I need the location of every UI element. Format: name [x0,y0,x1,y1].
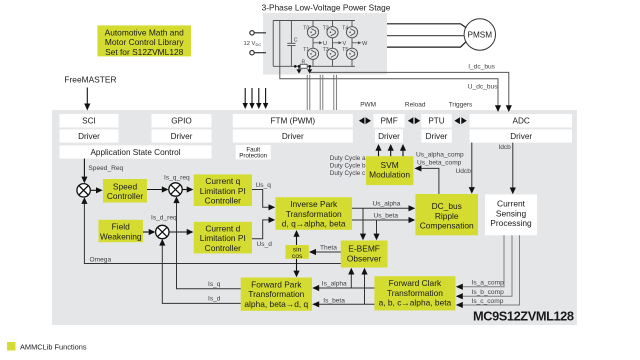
svg-text:Controller: Controller [205,243,242,253]
shunt resistor R [300,64,307,68]
wire Is_alpha branch up to E-BEMF [348,268,354,288]
svg-text:Is_alpha: Is_alpha [322,280,347,287]
svg-text:R: R [302,59,306,65]
wire Speed_Req from ASC to junction [81,159,87,184]
Current Sensing Processing white block [485,194,537,235]
svg-text:SCI: SCI [82,117,96,126]
bridge leg V [332,21,334,67]
svg-text:Us_q: Us_q [256,182,272,189]
SVM to PMF driver arrow 1 [375,144,381,156]
svg-text:Us_alpha: Us_alpha [373,201,401,208]
left rail 2 (bus sense) [279,21,281,67]
SVM to PMF driver arrow 3 [400,144,406,156]
SVM to PMF driver arrow 2 [388,144,394,156]
svg-text:Set for S12ZVML128: Set for S12ZVML128 [105,47,184,57]
svg-text:U: U [323,41,327,47]
svg-text:I_dc_bus: I_dc_bus [468,64,495,71]
svg-text:ADC: ADC [513,117,530,126]
svg-text:Driver: Driver [78,132,100,141]
svg-text:Ripple: Ripple [435,211,459,221]
svg-text:alpha, beta→d, q: alpha, beta→d, q [244,299,308,309]
svg-text:Application State Control: Application State Control [90,148,180,157]
svg-text:MC9S12ZVML128: MC9S12ZVML128 [473,309,574,324]
bridge leg W [351,21,353,67]
legend swatch [7,342,16,351]
svg-text:Forward Park: Forward Park [251,279,302,289]
wire Theta from E-BEMF to sin cos [309,249,341,255]
svg-text:Is_q: Is_q [208,281,221,288]
svg-text:T5: T5 [342,47,348,53]
transistor T5 [346,48,357,59]
wire sin cos down to Forward Park [293,259,299,278]
wire Us_beta from Inverse Park to DC_bus block [352,217,415,223]
12V terminal bottom [250,51,266,55]
wire Is_d from Forward Park to Is_d junction [159,239,241,304]
svg-text:Limitation PI: Limitation PI [200,186,246,196]
power stage gray background box [263,13,387,75]
svg-text:V: V [343,41,347,47]
SCI driver box [60,129,119,142]
svg-text:PWM: PWM [360,102,376,109]
Field Weakening block [99,220,144,242]
ADC box [470,114,573,128]
svg-text:Limitation PI: Limitation PI [200,233,246,243]
summing junction speed error [77,184,90,197]
wire Us_d from Current d PI to Inverse Park [252,217,275,239]
svg-text:Is_c_comp: Is_c_comp [472,298,504,305]
svg-text:Weakening: Weakening [100,231,142,241]
svg-text:Transformation: Transformation [286,209,342,219]
summing junction Is_q [169,183,182,196]
svg-text:SVM: SVM [381,160,399,170]
wire Idcb from ADC driver to Current Sensing [510,143,516,195]
PTU box [421,114,452,128]
MCU gray background box [52,110,577,325]
GPIO driver box [152,129,212,142]
svg-text:Compensation: Compensation [420,221,474,231]
bidirectional arrow FTM-PMF [359,117,371,124]
svg-text:Processing: Processing [490,218,532,228]
AMMCLib title box [97,25,191,56]
svg-text:E-BEMF: E-BEMF [348,244,380,254]
wire Is_beta from Forward Clark to Forward Park [312,301,374,307]
svg-text:FTM (PWM): FTM (PWM) [271,117,316,126]
svg-text:Theta: Theta [320,244,337,251]
wire Speed Controller to Is_q junction [147,186,169,192]
wire I_dc_bus to ADC [310,72,512,112]
bidirectional arrow PTU-ADC [454,117,466,124]
svg-text:DC_bus: DC_bus [432,201,462,211]
svg-text:Is_beta: Is_beta [323,297,345,304]
svg-text:Automotive Math and: Automotive Math and [105,27,184,37]
svg-text:Idcb: Idcb [498,144,511,151]
sin cos block [286,245,309,259]
svg-text:Is_a_comp: Is_a_comp [472,279,505,286]
PMSM motor circle [464,19,495,50]
svg-text:GPIO: GPIO [171,117,191,126]
bottom rail [273,65,355,67]
phase sense wire pair U [307,75,310,110]
ADC driver box [470,129,573,142]
svg-text:Udcb: Udcb [456,168,472,175]
transistor T3 [327,48,338,59]
svg-text:Duty Cycle a: Duty Cycle a [330,155,366,162]
wire Is_alpha from Forward Clark to Forward Park [312,285,374,291]
junction dots on bottom rail [294,65,311,68]
transistor T1 [307,48,318,59]
svg-text:Inverse Park: Inverse Park [290,199,338,209]
svg-text:Transformation: Transformation [387,288,443,298]
svg-text:Duty Cycle b: Duty Cycle b [330,162,366,169]
svg-text:Driver: Driver [378,132,400,141]
svg-text:PTU: PTU [428,117,444,126]
svg-text:T0: T0 [303,26,309,32]
svg-text:12 VDC: 12 VDC [244,41,262,47]
Current q Limitation PI Controller block [194,174,252,206]
svg-text:Us_beta_comp: Us_beta_comp [417,159,462,166]
wire junction to Speed Controller [90,187,102,193]
Application State Control box [60,145,212,158]
SVM Modulation block [366,156,414,185]
svg-text:Current: Current [497,199,526,209]
transistor T4 [346,27,357,38]
wire Is_q junction to Current q PI [182,186,193,192]
wire Udcb from ADC driver to DC_bus block [469,143,475,194]
svg-text:3-Phase Low-Voltage Power Stag: 3-Phase Low-Voltage Power Stage [262,3,391,13]
wire Us_beta branch down to E-BEMF [373,220,379,240]
svg-text:Driver: Driver [426,132,448,141]
svg-text:T4: T4 [342,26,348,32]
FTM (PWM) box [233,114,353,128]
Current d Limitation PI Controller block [194,222,252,254]
svg-text:Triggers: Triggers [449,102,473,109]
top rail [273,20,355,22]
svg-text:Speed_Req: Speed_Req [88,165,123,172]
wire U_dc_bus to ADC [280,66,501,112]
PWM gate arrow 3 [256,88,261,109]
svg-text:Sensing: Sensing [496,208,527,218]
svg-text:T1: T1 [303,47,309,53]
Forward Clark Transformation block [374,276,455,310]
phase wire W to PMSM [387,42,466,48]
svg-text:Current d: Current d [205,223,240,233]
PMF driver box [375,129,403,142]
PTU driver box [421,129,452,142]
svg-text:Reload: Reload [405,102,426,109]
capacitor C [287,21,295,67]
svg-text:Us_d: Us_d [257,241,273,248]
svg-text:U_dc_bus: U_dc_bus [468,83,498,90]
svg-text:C: C [294,38,298,44]
12V terminal top [250,31,266,35]
svg-text:Speed: Speed [113,181,138,191]
svg-text:Controller: Controller [205,196,242,206]
phase wire V to PMSM [387,35,465,37]
svg-text:Driver: Driver [171,132,193,141]
phase V arrow and label [333,41,343,44]
svg-text:Forward Clark: Forward Clark [389,278,442,288]
svg-text:Modulation: Modulation [369,170,410,180]
svg-text:Current q: Current q [205,176,240,186]
PWM gate arrow 1 [243,88,248,109]
svg-text:Us_alpha_comp: Us_alpha_comp [416,152,464,159]
svg-text:Motor Control Library: Motor Control Library [105,37,184,47]
phase W arrow and label [352,41,362,44]
phase sense wire pair W [334,75,337,110]
GPIO box [152,114,212,128]
svg-text:Driver: Driver [510,132,532,141]
wire sin cos up to Inverse Park [293,230,299,245]
summing junction Is_d [156,225,169,238]
wire DC_bus comp output to SVM [414,165,439,194]
svg-text:PMF: PMF [380,117,397,126]
svg-text:d, q→alpha, beta: d, q→alpha, beta [282,219,346,229]
wire Omega from E-BEMF to speed junction [81,197,341,263]
Fault Protection box [236,145,271,159]
Forward Park Transformation block [241,278,312,311]
SCI box [60,114,119,128]
svg-text:FreeMASTER: FreeMASTER [64,75,116,85]
FTM driver box [233,129,353,142]
wire Is_q from Forward Park to Is_q junction [173,196,240,288]
left rail 1 [272,21,274,67]
wire FreeMASTER to SCI [84,88,90,111]
phase sense wire pair V [320,75,323,110]
svg-text:Observer: Observer [347,254,382,264]
wire Is_a_comp from Current Sensing to Forward Clark [456,235,504,290]
wire Us_q from Current q PI to Inverse Park [252,190,275,211]
PWM gate arrow 4 [263,88,268,109]
wire Is_beta branch up to E-BEMF [361,268,367,305]
svg-text:PMSM: PMSM [468,30,493,39]
svg-text:Duty Cycle c: Duty Cycle c [330,170,365,177]
svg-text:Protection: Protection [239,153,267,160]
svg-text:T3: T3 [323,47,329,53]
svg-text:Us_beta: Us_beta [374,212,399,219]
svg-text:W: W [362,41,368,47]
svg-text:Is_q_req: Is_q_req [164,174,190,181]
svg-text:T2: T2 [323,26,329,32]
svg-text:Is_d: Is_d [208,296,221,303]
wire Is_c_comp from Current Sensing to Forward Clark [456,235,520,308]
wire Is_d junction to Current d PI [169,229,193,235]
transistor T2 [327,27,338,38]
svg-text:Is_b_comp: Is_b_comp [472,289,505,296]
svg-text:AMMCLib Functions: AMMCLib Functions [20,342,87,351]
svg-text:a, b, c→alpha, beta: a, b, c→alpha, beta [379,298,452,308]
bidirectional arrow PMF-PTU [408,117,420,124]
PWM gate arrow 2 [249,88,254,109]
wire Is_b_comp from Current Sensing to Forward Clark [456,235,512,299]
svg-text:Omega: Omega [90,257,112,264]
PMF box [374,114,405,128]
wire Us_alpha from Inverse Park to DC_bus block [352,205,415,211]
Inverse Park Transformation block [276,197,353,230]
svg-text:Field: Field [112,222,130,232]
Speed Controller block [103,179,147,203]
shunt sense arrow left [297,66,302,73]
svg-text:Driver: Driver [282,132,304,141]
transistor T0 [307,27,318,38]
svg-text:cos: cos [292,253,303,260]
phase wire U to PMSM [387,24,466,28]
bridge leg U [312,21,314,67]
svg-text:Is_d_req: Is_d_req [151,215,177,222]
phase U arrow and label [313,41,323,44]
svg-text:Controller: Controller [107,191,144,201]
shunt sense arrow right [307,66,312,73]
E-BEMF Observer block [341,241,388,268]
svg-text:Transformation: Transformation [248,289,304,299]
DC_bus Ripple Compensation block [415,194,478,235]
wire Field Weakening to Is_d junction [143,229,155,235]
wire Us_alpha branch down to E-BEMF [360,208,366,240]
